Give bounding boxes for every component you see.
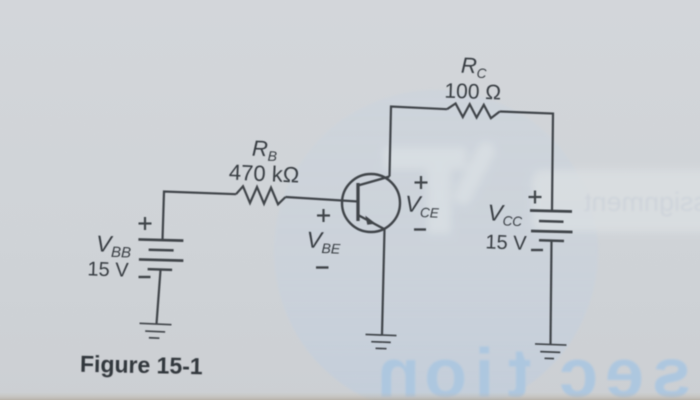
- battery VBB: [138, 239, 184, 270]
- wire: collector up to top rail: [390, 107, 448, 177]
- resistor RC: [447, 104, 500, 119]
- plus sign (VCC): [529, 191, 542, 204]
- plus sign (VCE): [415, 176, 428, 189]
- minus sign (VCC): [531, 249, 543, 251]
- svg-text:100 Ω: 100 Ω: [444, 80, 501, 105]
- svg-text:470 kΩ: 470 kΩ: [228, 160, 299, 188]
- wire: VBB top to RB (node B loop): [163, 192, 237, 241]
- wire: RC to VCC battery: [500, 112, 553, 211]
- wire: emitter to ground: [382, 230, 385, 336]
- svg-text:15 V: 15 V: [485, 231, 528, 254]
- battery VCC: [530, 211, 573, 242]
- minus sign (VCE): [414, 228, 426, 230]
- ground (VCC): [535, 344, 567, 359]
- wire: VBB battery to ground: [157, 270, 161, 324]
- svg-text:Figure 15-1: Figure 15-1: [80, 351, 203, 380]
- ground (emitter): [365, 334, 396, 349]
- svg-text:15 V: 15 V: [87, 258, 130, 281]
- wire: VCC battery to ground: [551, 241, 552, 345]
- ground (VBB): [139, 323, 172, 338]
- minus sign (VBE): [316, 266, 329, 268]
- transistor Q1: [342, 174, 400, 232]
- plus sign (VBE): [317, 209, 330, 222]
- resistor RB: [236, 186, 286, 204]
- minus sign (VBB): [139, 276, 151, 278]
- plus sign (VBB): [139, 217, 152, 230]
- wire: RB to transistor base: [286, 197, 359, 202]
